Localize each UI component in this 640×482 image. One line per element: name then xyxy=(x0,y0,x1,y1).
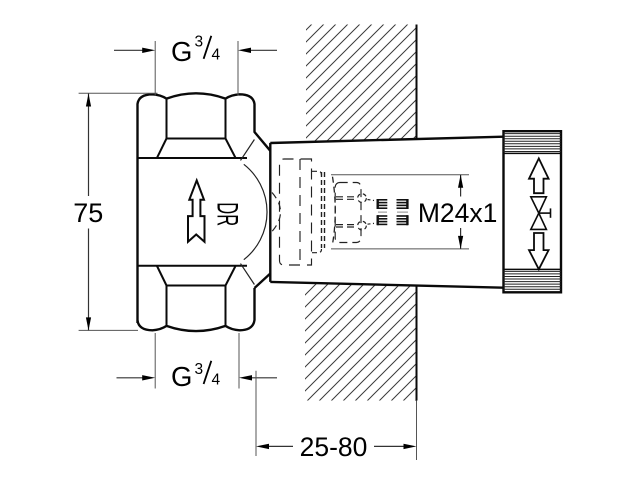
spindle thread block left xyxy=(377,200,387,225)
packing nut dashed circle lower xyxy=(358,221,367,230)
hex base line top xyxy=(138,157,248,159)
cap down arrow xyxy=(529,233,549,269)
dim 25-80 arrow left xyxy=(256,444,269,449)
hidden sphere arc dashed xyxy=(272,193,281,232)
cone bottom edge xyxy=(270,282,503,288)
shoulder thin diagonal upper xyxy=(241,140,255,161)
cartridge dashed mid line xyxy=(299,159,301,265)
dim G3/4 bottom line left xyxy=(117,377,144,379)
dim M24x1 line upper xyxy=(460,175,462,197)
hex facet left vertical bottom xyxy=(166,286,168,326)
hex facet upper-right slant bottom xyxy=(226,266,236,286)
cap valve bowtie upper triangle xyxy=(531,197,547,213)
dim 25-80 extension lines xyxy=(255,371,257,456)
dim G3/4 bottom line right xyxy=(252,377,278,379)
svg-text:G: G xyxy=(171,361,192,392)
hex facet horizontal bottom xyxy=(167,285,226,287)
dim G3/4 top arrow right xyxy=(238,48,251,53)
dim 75 line lower xyxy=(88,229,90,331)
cartridge dashed arc xyxy=(333,177,336,245)
cartridge flange dashed pair xyxy=(321,172,323,248)
valve body lower outline xyxy=(138,288,255,331)
flow arrow DR xyxy=(188,180,205,241)
dim G3/4 top arrow left xyxy=(142,48,155,53)
valve body upper outline xyxy=(138,93,271,323)
dim 75 arrow down xyxy=(86,317,91,330)
dim M24x1 arrow up xyxy=(458,175,463,188)
dim 25-80 line right xyxy=(374,445,404,447)
svg-text:3: 3 xyxy=(195,34,204,51)
dim M24x1 line lower xyxy=(460,228,462,249)
svg-text:M24x1: M24x1 xyxy=(418,198,498,228)
svg-text:75: 75 xyxy=(73,198,103,228)
hex facet left vertical top xyxy=(166,99,168,139)
wall hatch upper block xyxy=(306,25,417,143)
cap valve stem tick xyxy=(539,212,551,214)
spindle shaft dashed lines xyxy=(336,196,358,198)
cap knurl band top xyxy=(504,134,562,152)
shoulder thin diagonal lower xyxy=(241,264,255,285)
dim 75 arrow up xyxy=(86,94,91,107)
hex facet lower-right slant top xyxy=(226,139,236,158)
dim G3/4 bottom extension lines xyxy=(154,333,156,389)
dim G3/4 bottom arrow right xyxy=(239,375,252,380)
dim 75 line upper xyxy=(88,94,90,197)
hex base line bottom xyxy=(138,265,248,267)
connector dashes xyxy=(368,200,375,201)
cap knurl band bottom xyxy=(504,268,562,270)
cartridge dashed housing xyxy=(280,159,312,265)
cone top edge xyxy=(270,137,503,143)
cartridge step dashed upper xyxy=(312,171,322,175)
cap up arrow xyxy=(529,158,549,193)
dim G3/4 top line right xyxy=(251,49,278,51)
dim M24x1 extension lines xyxy=(331,174,469,176)
hex facet horizontal top xyxy=(167,138,226,140)
wall upper right edge xyxy=(416,25,418,140)
hex facet right vertical bottom xyxy=(225,286,227,326)
sphere arc xyxy=(244,164,267,259)
hex facet right vertical top xyxy=(225,99,227,139)
cartridge step dashed lower xyxy=(312,249,322,253)
wall lower right edge xyxy=(416,286,418,401)
svg-text:4: 4 xyxy=(212,47,221,64)
dim 25-80 line left xyxy=(269,445,293,447)
wall hatch lower block xyxy=(305,283,417,401)
protective cap body xyxy=(504,131,562,292)
hex facet upper-left slant bottom xyxy=(157,266,167,286)
svg-text:3: 3 xyxy=(195,361,204,378)
cap valve bowtie lower triangle xyxy=(531,213,547,229)
packing nut dashed circle upper xyxy=(358,194,367,203)
dim G3/4 top extension lines xyxy=(154,41,156,96)
svg-text:25-80: 25-80 xyxy=(300,432,368,462)
spindle housing dashed xyxy=(335,183,361,243)
dim 75 extension lines xyxy=(79,92,158,94)
hex facet lower-left slant top xyxy=(157,139,167,158)
spindle thread block right xyxy=(397,200,409,225)
svg-text:G: G xyxy=(171,36,192,67)
cone left face xyxy=(269,143,271,282)
dim M24x1 arrow down xyxy=(458,236,463,249)
svg-text:4: 4 xyxy=(212,372,221,389)
shoulder diagonal lower xyxy=(255,274,271,289)
dim G3/4 bottom arrow left xyxy=(142,375,155,380)
dim G3/4 top line left xyxy=(114,49,143,51)
svg-text:DR: DR xyxy=(210,202,243,226)
dim 25-80 arrow right xyxy=(404,444,417,449)
